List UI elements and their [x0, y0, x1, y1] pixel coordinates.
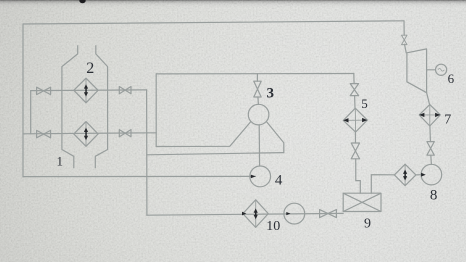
wire: feed line y=176 to compressor 4	[23, 175, 256, 177]
wire: mid header y=73.5	[156, 73, 354, 75]
heat exchanger box 9	[343, 193, 381, 211]
valve before box 9 (horizontal bowtie)	[320, 210, 337, 218]
svg-text:5: 5	[361, 96, 368, 111]
wire: valve3 drop	[256, 74, 258, 82]
wire: compressor 3 suction y=146.4	[156, 122, 251, 147]
wire: valve5 to exchanger5	[354, 96, 356, 109]
wire: valve7 to exchanger 7	[429, 126, 432, 142]
exchanger diamond 5	[343, 108, 367, 132]
dark blob top edge	[79, 0, 85, 3]
wire: exchanger7 to expander outlet	[427, 93, 430, 105]
wire: lower valve row y=133.5	[23, 133, 156, 134]
valve upper-left bowtie	[37, 87, 51, 94]
valve lower-right bowtie	[119, 130, 131, 137]
wire diamond8 to circle8	[416, 174, 421, 176]
wire: valve3 to compressor 3	[257, 97, 260, 104]
small valve on expander inlet	[402, 35, 408, 44]
arrow pair in filter diamond 8	[403, 170, 407, 181]
svg-text:7: 7	[444, 113, 451, 128]
arrow into circle 8	[421, 173, 426, 177]
svg-text:2: 2	[86, 60, 94, 77]
adsorber diamond lower	[74, 122, 98, 147]
compressor 3 circle	[248, 104, 269, 125]
wire: left riser x=23	[22, 24, 24, 177]
generator circle 6	[436, 64, 447, 75]
wire: box9 to separator 8 line	[371, 175, 394, 194]
wire: discharge header y=153.5	[147, 153, 284, 155]
vessel 1 (twin adsorber outline)	[62, 45, 108, 168]
dark tip at diamond 10 left vertex	[242, 212, 246, 216]
wire: compressor 3 discharge leg	[267, 122, 284, 153]
wire: JT valve to box 9 jog	[356, 159, 361, 193]
arrow pair in adsorber diamond upper	[84, 84, 88, 96]
filter diamond 8	[394, 164, 416, 186]
arrows in exchanger diamond 7	[419, 113, 440, 117]
arrow pair in adsorber diamond lower	[84, 128, 88, 141]
svg-text:1: 1	[57, 154, 64, 169]
JT valve below 5 (vertical bowtie)	[351, 143, 359, 159]
adsorber diamond upper	[74, 78, 98, 103]
wire: expander to generator 6	[427, 69, 436, 71]
svg-text:10: 10	[266, 219, 280, 234]
wire: separator riser to valve7	[430, 155, 433, 164]
svg-text:8: 8	[430, 187, 438, 203]
tick inside pump	[286, 212, 290, 215]
valve lower-left bowtie	[37, 130, 51, 137]
svg-text:6: 6	[448, 71, 455, 86]
arrow pair in filter diamond 10	[254, 208, 258, 219]
wire: bottom line y=215 to box 9	[147, 213, 343, 215]
expander (turbine) trapezoid 6	[407, 49, 427, 93]
arrows in exchanger diamond 5	[343, 118, 367, 123]
valve upper-right bowtie	[119, 87, 131, 94]
pump circle (after 10)	[284, 203, 305, 224]
wire: valve5 drop from header	[353, 74, 355, 84]
valve 3 (vertical bowtie)	[254, 81, 261, 97]
wire: expander inlet drop	[403, 21, 405, 35]
filter diamond 10	[243, 200, 268, 228]
svg-text:9: 9	[364, 217, 371, 232]
svg-text:4: 4	[275, 172, 283, 188]
separator circle 8	[421, 164, 442, 185]
valve 5 (vertical bowtie)	[350, 84, 358, 96]
exchanger diamond 7	[419, 105, 440, 126]
wire: exchanger5 to JT valve	[354, 132, 356, 143]
dark marks	[84, 84, 440, 219]
wire: upper valve row y=90	[31, 89, 147, 92]
wire: vertical x=146.5 (discharge/return riser)	[146, 90, 148, 215]
svg-text:3: 3	[267, 85, 275, 101]
wire: top header from left riser to expander inlet	[23, 21, 404, 24]
wire: vertical x=156 from top header to suction line	[155, 74, 157, 147]
valve above circle 8 (vertical bowtie)	[427, 142, 434, 156]
wire: compressor 3 to compressor 4	[258, 125, 260, 166]
arrow into compressor 4	[251, 175, 256, 179]
wire: left header between valve rows	[30, 91, 32, 134]
compressor 4 circle	[250, 166, 271, 187]
